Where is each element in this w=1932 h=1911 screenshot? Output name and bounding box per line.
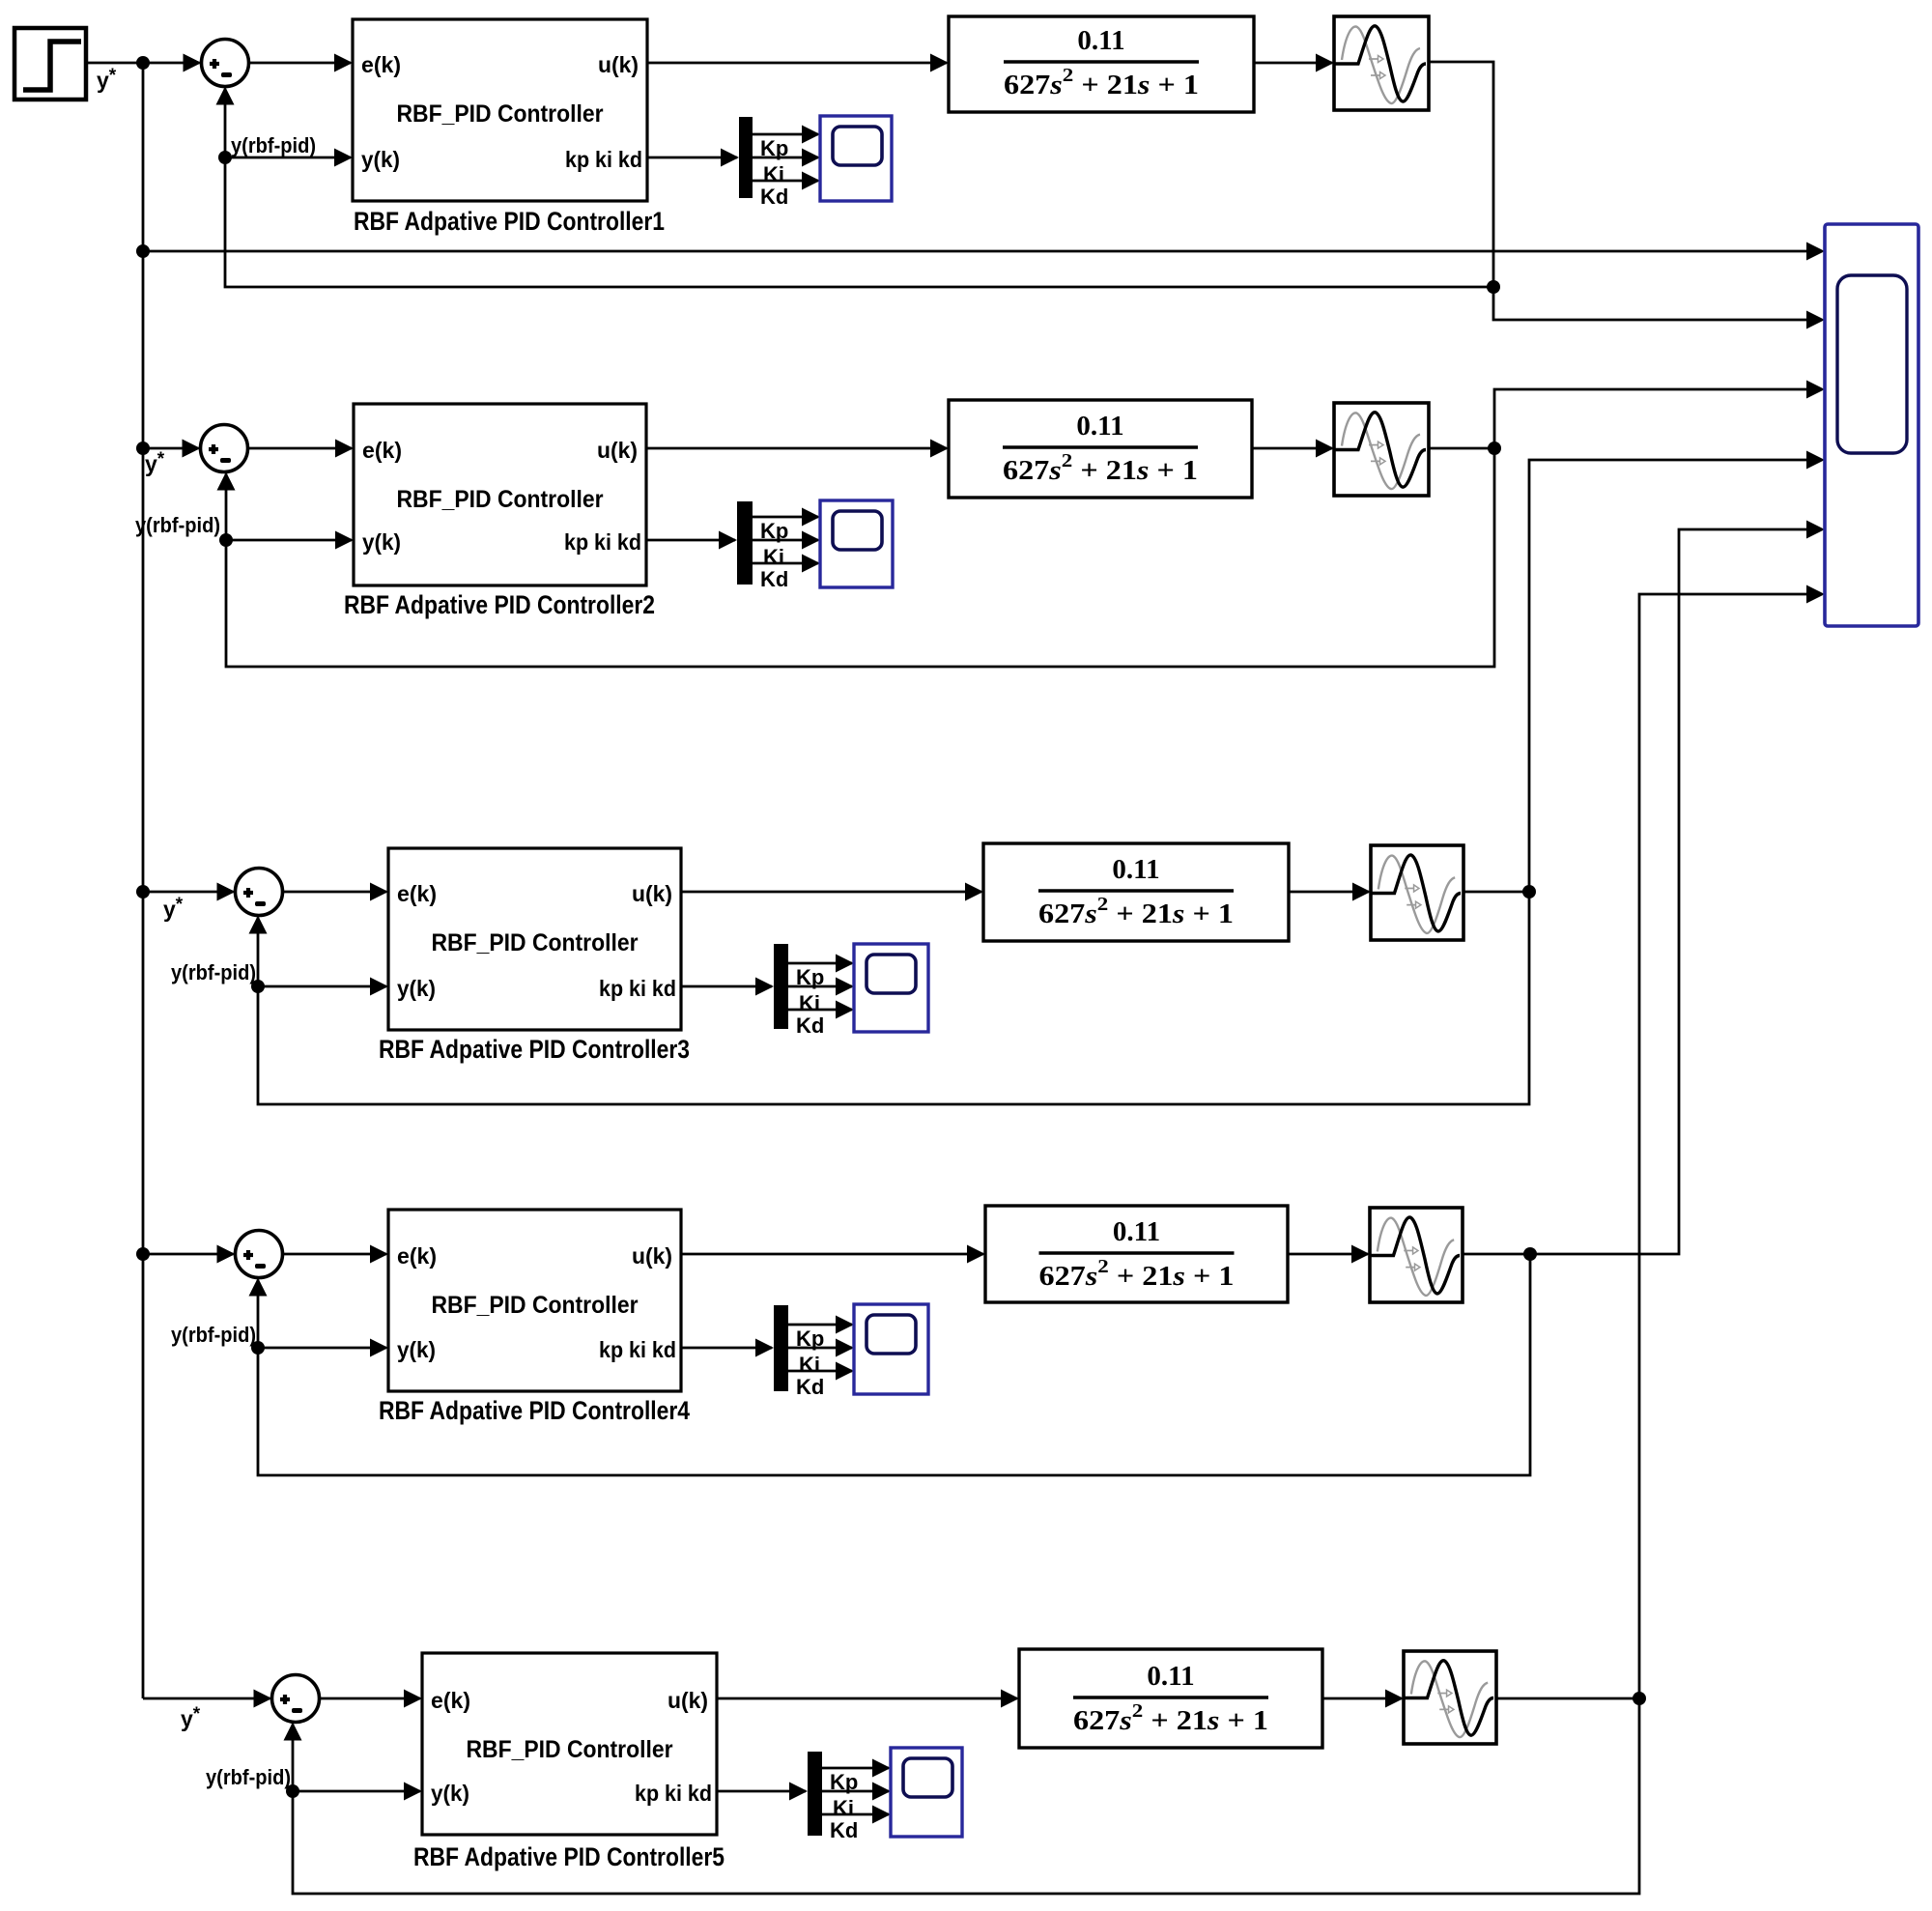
svg-text:y(rbf-pid): y(rbf-pid) — [171, 960, 256, 984]
wire feedback into sum minus row 3 — [249, 916, 268, 987]
wire output row 5 to scope input 6 — [1639, 585, 1825, 1699]
label y(rbf-pid) row 4 — [171, 1323, 256, 1347]
wire demux Ki output row 3 — [788, 978, 854, 996]
label RBF Adpative PID Controller5 caption — [413, 1842, 724, 1871]
wire output row 3 to scope input 4 — [1529, 451, 1825, 893]
wire demux Ki output row 5 — [822, 1783, 891, 1801]
svg-text:kp ki kd: kp ki kd — [599, 976, 676, 1001]
wire feedback row 2 — [226, 448, 1494, 667]
svg-text:kp ki kd: kp ki kd — [564, 529, 641, 555]
node y* tap row 3 — [136, 885, 150, 898]
svg-text:RBF_PID Controller: RBF_PID Controller — [467, 1736, 673, 1763]
wire feedback into sum minus row 2 — [217, 472, 236, 541]
wire feedback row 3 — [258, 892, 1529, 1104]
node output junction row 3 — [1522, 885, 1536, 898]
scope block row 2 — [820, 500, 893, 587]
label Ki row 4 — [799, 1353, 820, 1377]
wire plant output row 1 to scope input 2 — [1429, 62, 1825, 329]
svg-text:e(k): e(k) — [397, 1243, 437, 1269]
wire demux Kd output row 1 — [753, 172, 820, 190]
svg-text:Kp: Kp — [796, 1326, 824, 1351]
svg-text:Kd: Kd — [796, 1375, 824, 1399]
wire demux Kp output row 2 — [753, 508, 820, 527]
block transport delay row 2 — [1334, 403, 1429, 496]
wire y* into sum row 3 — [143, 883, 236, 901]
label Kp row 4 — [796, 1326, 824, 1351]
wire feedback into sum minus row 1 — [216, 87, 235, 158]
wire sum to e(k) row 5 — [320, 1690, 423, 1708]
block transfer function 0.11/(627s^2+21s+1) row 1 — [949, 16, 1254, 112]
label Ki row 5 — [833, 1796, 854, 1820]
wire sum to e(k) row 1 — [249, 54, 354, 72]
svg-text:RBF_PID Controller: RBF_PID Controller — [397, 100, 604, 128]
label y(rbf-pid) row 2 — [135, 513, 220, 537]
block transfer function 0.11/(627s^2+21s+1) row 4 — [985, 1206, 1288, 1302]
svg-text:RBF_PID Controller: RBF_PID Controller — [397, 486, 604, 513]
node output junction row 4 — [1523, 1247, 1537, 1261]
svg-text:kp ki kd: kp ki kd — [599, 1337, 676, 1362]
node y(rbf-pid) junction row 3 — [251, 980, 265, 993]
demux row 1 — [739, 117, 753, 198]
scope block row 1 — [820, 116, 892, 201]
wire output row 2 to scope input 3 — [1494, 381, 1825, 449]
svg-text:RBF Adpative PID Controller4: RBF Adpative PID Controller4 — [379, 1396, 690, 1425]
sum junction S5 (+/-) — [272, 1675, 320, 1723]
svg-text:y(rbf-pid): y(rbf-pid) — [206, 1765, 291, 1789]
demux row 2 — [737, 501, 753, 585]
sum junction S4 (+/-) — [236, 1231, 283, 1278]
svg-text:RBF Adpative PID Controller2: RBF Adpative PID Controller2 — [344, 590, 655, 619]
wire plant output row 4 — [1463, 1253, 1530, 1256]
demux row 5 — [808, 1752, 822, 1836]
svg-text:RBF Adpative PID Controller1: RBF Adpative PID Controller1 — [354, 207, 665, 236]
label Ki row 3 — [799, 991, 820, 1015]
scope block main (right) — [1825, 224, 1918, 626]
svg-text:Ki: Ki — [833, 1796, 854, 1820]
wire y* into sum row 4 — [143, 1245, 236, 1264]
label RBF Adpative PID Controller2 caption — [344, 590, 655, 619]
label RBF Adpative PID Controller4 caption — [379, 1396, 690, 1425]
block RBF_PID Controller 2 — [354, 404, 646, 585]
scope block row 3 — [854, 944, 928, 1032]
svg-text:Ki: Ki — [799, 1353, 820, 1377]
wire plant output row 2 — [1429, 447, 1494, 450]
node y(rbf-pid) junction row 1 — [218, 151, 232, 164]
svg-text:y(k): y(k) — [397, 976, 436, 1001]
svg-text:y(rbf-pid): y(rbf-pid) — [171, 1323, 256, 1347]
svg-text:Ki: Ki — [799, 991, 820, 1015]
wire y(rbf-pid) into y(k) row 5 — [293, 1783, 422, 1801]
wire y* into sum row 5 — [143, 1690, 272, 1708]
wire kp ki kd to demux row 2 — [646, 531, 737, 550]
node y* to scope tap — [136, 244, 150, 258]
node reference bus top junction — [136, 56, 150, 70]
label Kp row 2 — [760, 519, 788, 543]
wire transfer fcn to transport delay row 3 — [1289, 883, 1371, 901]
label y* row 5 — [181, 1704, 201, 1731]
label RBF Adpative PID Controller3 caption — [379, 1035, 690, 1064]
svg-text:u(k): u(k) — [668, 1688, 708, 1713]
svg-text:y(k): y(k) — [361, 147, 400, 172]
wire u(k) to transfer fcn row 2 — [646, 440, 949, 458]
svg-text:y(rbf-pid): y(rbf-pid) — [135, 513, 220, 537]
sum junction S1 (+/-) — [202, 40, 249, 87]
wire y(rbf-pid) into y(k) row 3 — [258, 978, 388, 996]
block transport delay row 5 — [1404, 1651, 1496, 1744]
wire y(rbf-pid) into y(k) row 1 — [225, 149, 353, 167]
wire demux Ki output row 4 — [788, 1339, 854, 1357]
wire demux Kp output row 3 — [788, 955, 854, 973]
wire u(k) to transfer fcn row 1 — [647, 54, 949, 72]
wire feedback into sum minus row 4 — [249, 1278, 268, 1349]
wire feedback into sum minus row 5 — [284, 1723, 302, 1792]
svg-text:Kp: Kp — [760, 519, 788, 543]
wire plant output row 5 — [1496, 1697, 1639, 1700]
wire demux Ki output row 1 — [753, 149, 820, 167]
svg-text:y(k): y(k) — [362, 529, 401, 555]
wire y(rbf-pid) into y(k) row 2 — [226, 531, 354, 550]
step source block — [14, 28, 86, 100]
node y* tap row 4 — [136, 1247, 150, 1261]
label Kp row 5 — [830, 1770, 858, 1794]
scope block row 5 — [891, 1748, 962, 1837]
label y(rbf-pid) row 5 — [206, 1765, 291, 1789]
svg-text:Kp: Kp — [830, 1770, 858, 1794]
node y(rbf-pid) junction row 4 — [251, 1341, 265, 1355]
wire sum to e(k) row 3 — [283, 883, 389, 901]
wire demux Kd output row 2 — [753, 555, 820, 573]
svg-text:Ki: Ki — [763, 545, 784, 569]
label y* row 2 — [145, 449, 165, 476]
label RBF Adpative PID Controller1 caption — [354, 207, 665, 236]
label Ki row 2 — [763, 545, 784, 569]
block transport delay row 3 — [1371, 845, 1463, 940]
wire transfer fcn to transport delay row 5 — [1322, 1690, 1404, 1708]
svg-text:0.11: 0.11 — [1112, 854, 1159, 885]
wire kp ki kd to demux row 3 — [681, 978, 774, 996]
svg-text:e(k): e(k) — [397, 881, 437, 906]
block transfer function 0.11/(627s^2+21s+1) row 3 — [983, 843, 1289, 941]
wire y* to scope input 1 — [143, 242, 1825, 261]
node output junction row 5 — [1633, 1692, 1646, 1705]
wire u(k) to transfer fcn row 5 — [717, 1690, 1019, 1708]
label Kp row 3 — [796, 965, 824, 989]
sum junction S2 (+/-) — [201, 425, 248, 472]
wire demux Ki output row 2 — [753, 531, 820, 550]
wire feedback row 4 — [258, 1254, 1530, 1475]
wire reference bus vertical y* — [142, 63, 145, 1698]
label Kd row 1 — [760, 185, 788, 209]
wire y* into sum row 1 — [143, 54, 202, 72]
svg-text:u(k): u(k) — [632, 881, 672, 906]
block RBF_PID Controller 4 — [388, 1210, 681, 1391]
demux row 3 — [774, 944, 788, 1029]
wire demux Kp output row 1 — [753, 126, 820, 144]
svg-text:Kd: Kd — [796, 1013, 824, 1038]
svg-text:u(k): u(k) — [632, 1243, 672, 1269]
wire u(k) to transfer fcn row 4 — [681, 1245, 985, 1264]
wire y* into sum row 2 — [143, 440, 201, 458]
wire feedback row 1 — [225, 157, 1493, 287]
svg-text:Kd: Kd — [830, 1818, 858, 1842]
block transport delay row 4 — [1370, 1208, 1463, 1302]
wire transfer fcn to transport delay row 1 — [1254, 54, 1334, 72]
node y(rbf-pid) junction row 5 — [286, 1784, 299, 1798]
svg-text:e(k): e(k) — [362, 438, 402, 463]
svg-text:0.11: 0.11 — [1077, 25, 1124, 56]
svg-text:u(k): u(k) — [597, 438, 638, 463]
svg-text:627s2 + 21s + 1: 627s2 + 21s + 1 — [1039, 1256, 1235, 1292]
svg-text:y(rbf-pid): y(rbf-pid) — [231, 133, 316, 157]
svg-text:y(k): y(k) — [431, 1781, 469, 1806]
label y* of step source — [97, 66, 117, 93]
svg-text:e(k): e(k) — [431, 1688, 470, 1713]
block transport delay row 1 — [1334, 16, 1429, 110]
wire transfer fcn to transport delay row 2 — [1252, 440, 1334, 458]
svg-text:Kd: Kd — [760, 185, 788, 209]
svg-text:Kp: Kp — [796, 965, 824, 989]
wire demux Kd output row 3 — [788, 1001, 854, 1019]
block RBF_PID Controller 1 — [353, 19, 647, 201]
svg-text:0.11: 0.11 — [1076, 411, 1123, 442]
svg-text:627s2 + 21s + 1: 627s2 + 21s + 1 — [1038, 894, 1234, 929]
node y* tap row 2 — [136, 442, 150, 455]
wire demux Kd output row 4 — [788, 1362, 854, 1381]
block RBF_PID Controller 5 — [422, 1653, 717, 1835]
svg-text:e(k): e(k) — [361, 52, 401, 77]
svg-text:627s2 + 21s + 1: 627s2 + 21s + 1 — [1073, 1700, 1268, 1736]
wire plant output row 3 — [1463, 891, 1529, 894]
label y(rbf-pid) row 1 — [231, 133, 316, 157]
svg-text:RBF_PID Controller: RBF_PID Controller — [432, 929, 639, 956]
label Kd row 3 — [796, 1013, 824, 1038]
wire sum to e(k) row 2 — [248, 440, 355, 458]
label Kd row 5 — [830, 1818, 858, 1842]
svg-text:Kp: Kp — [760, 136, 788, 160]
wire transfer fcn to transport delay row 4 — [1288, 1245, 1370, 1264]
wire demux Kd output row 5 — [822, 1806, 891, 1824]
block RBF_PID Controller 3 — [388, 848, 681, 1030]
label y(rbf-pid) row 3 — [171, 960, 256, 984]
svg-text:RBF Adpative PID Controller5: RBF Adpative PID Controller5 — [413, 1842, 724, 1871]
wire demux Kp output row 4 — [788, 1316, 854, 1334]
scope block row 4 — [854, 1304, 928, 1394]
wire y(rbf-pid) into y(k) row 4 — [258, 1339, 388, 1357]
label Kd row 4 — [796, 1375, 824, 1399]
wire kp ki kd to demux row 4 — [681, 1339, 774, 1357]
sum junction S3 (+/-) — [236, 869, 283, 916]
node output junction row 2 — [1488, 442, 1501, 455]
label Ki row 1 — [763, 162, 784, 186]
svg-text:y(k): y(k) — [397, 1337, 436, 1362]
svg-text:0.11: 0.11 — [1113, 1216, 1160, 1247]
svg-text:627s2 + 21s + 1: 627s2 + 21s + 1 — [1003, 450, 1198, 486]
label y* row 3 — [163, 895, 184, 922]
svg-text:RBF_PID Controller: RBF_PID Controller — [432, 1292, 639, 1319]
svg-text:Kd: Kd — [760, 567, 788, 591]
svg-text:Ki: Ki — [763, 162, 784, 186]
demux row 4 — [774, 1305, 788, 1391]
block transfer function 0.11/(627s^2+21s+1) row 2 — [949, 400, 1252, 498]
wire output row 4 to scope input 5 — [1530, 521, 1825, 1255]
svg-text:kp ki kd: kp ki kd — [635, 1781, 712, 1806]
svg-text:RBF Adpative PID Controller3: RBF Adpative PID Controller3 — [379, 1035, 690, 1064]
wire sum to e(k) row 4 — [283, 1245, 389, 1264]
svg-text:627s2 + 21s + 1: 627s2 + 21s + 1 — [1004, 65, 1199, 100]
wire feedback row 5 — [293, 1698, 1639, 1894]
node y(rbf-pid) junction row 2 — [219, 533, 233, 547]
node output junction row 1 — [1487, 280, 1500, 294]
svg-text:kp ki kd: kp ki kd — [565, 147, 642, 172]
label Kp row 1 — [760, 136, 788, 160]
label Kd row 2 — [760, 567, 788, 591]
wire demux Kp output row 5 — [822, 1759, 891, 1778]
svg-text:u(k): u(k) — [598, 52, 639, 77]
wire step output to reference bus — [86, 62, 143, 65]
block transfer function 0.11/(627s^2+21s+1) row 5 — [1019, 1649, 1322, 1748]
svg-text:0.11: 0.11 — [1147, 1661, 1194, 1692]
wire kp ki kd to demux row 1 — [647, 149, 739, 167]
wire u(k) to transfer fcn row 3 — [681, 883, 983, 901]
wire kp ki kd to demux row 5 — [717, 1783, 808, 1801]
